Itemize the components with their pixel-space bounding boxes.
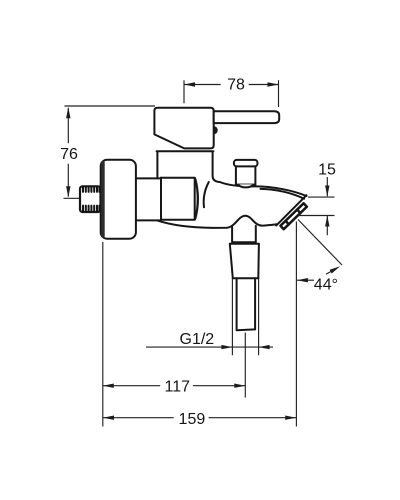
dim 15 extension lines xyxy=(298,197,335,215)
spout tip vertical extension line xyxy=(295,222,297,427)
spout trailing edge band xyxy=(276,195,306,225)
dim 15 line xyxy=(326,177,328,235)
spout top edge xyxy=(220,182,307,196)
dim 44 arrow to diagonal xyxy=(326,270,334,275)
outlet centerline xyxy=(244,333,246,398)
svg-text:76: 76 xyxy=(60,146,78,163)
cartridge housing xyxy=(154,108,213,149)
dim G1/2 arrows xyxy=(221,345,269,349)
svg-text:78: 78 xyxy=(227,76,245,93)
threaded tailpiece xyxy=(80,186,101,212)
spout bottom edge xyxy=(158,216,278,228)
dim 117 arrows xyxy=(103,384,246,388)
valve body cylinder xyxy=(161,178,198,220)
dim 76 line xyxy=(64,108,80,199)
dim 76 arrows xyxy=(66,107,70,197)
aerator grill xyxy=(280,203,307,229)
svg-text:G1/2: G1/2 xyxy=(180,331,215,348)
diverter knob xyxy=(234,160,258,188)
flange extension line xyxy=(102,242,104,427)
flow direction line 44deg xyxy=(298,220,342,266)
lever pivot cap xyxy=(214,126,218,134)
dim G1/2 extension lines xyxy=(232,279,258,356)
dim 76 extension line xyxy=(65,105,156,107)
svg-text:15: 15 xyxy=(318,161,336,178)
connector sleeve xyxy=(136,178,161,221)
shower outlet pipe xyxy=(237,278,256,330)
shower outlet collar xyxy=(232,226,256,242)
lever handle xyxy=(214,111,280,123)
spout top edge inner line xyxy=(261,189,305,199)
dim 78 arrows xyxy=(184,82,279,86)
dim 159 line xyxy=(103,417,296,419)
dim 117 line xyxy=(103,385,246,387)
dim 15 arrows xyxy=(325,186,329,227)
wall flange xyxy=(101,160,136,239)
body-spout contour line xyxy=(204,182,209,207)
svg-text:159: 159 xyxy=(179,411,206,428)
shower outlet taper xyxy=(230,244,259,279)
dim 78 extension lines xyxy=(184,80,279,107)
dim 159 arrows xyxy=(103,416,296,420)
body neck xyxy=(157,151,220,182)
dim G1/2 line xyxy=(146,346,273,348)
svg-text:117: 117 xyxy=(165,378,191,395)
dim 78 line xyxy=(184,84,279,86)
svg-text:44°: 44° xyxy=(314,277,338,294)
dim 44 arrow to vertical xyxy=(297,279,314,281)
